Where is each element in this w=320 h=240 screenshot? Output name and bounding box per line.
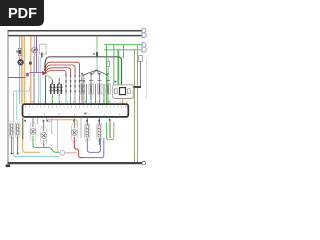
svg-text:PDF: PDF [8, 6, 37, 22]
